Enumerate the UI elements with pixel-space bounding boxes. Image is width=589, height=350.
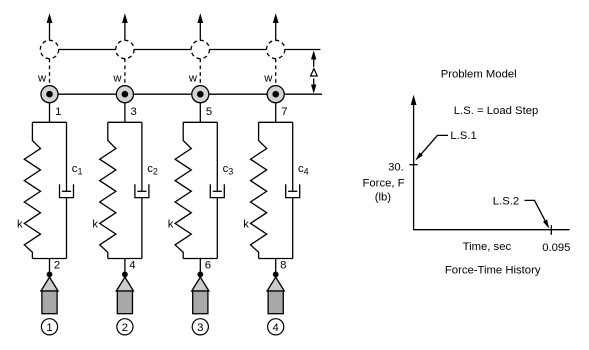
svg-text:2: 2 bbox=[122, 322, 128, 334]
label delta bbox=[311, 69, 318, 76]
svg-text:k: k bbox=[92, 219, 98, 231]
node 8 junction dot bbox=[273, 272, 279, 278]
svg-text:Force-Time History: Force-Time History bbox=[445, 265, 541, 277]
svg-text:30.: 30. bbox=[388, 161, 404, 173]
svg-text:1: 1 bbox=[46, 322, 52, 334]
support anchor triangle, column 4 bbox=[267, 277, 284, 291]
wire: rigid link row through dashed circles bbox=[50, 49, 321, 51]
support anchor triangle, column 1 bbox=[41, 277, 58, 291]
wire mass to spring-damper box, column 4 bbox=[275, 103, 277, 123]
damper c3, column 3 bbox=[210, 122, 224, 258]
displacement arrow, column 2 bbox=[122, 13, 128, 40]
dashed wire from displaced position to mass, column 3 bbox=[199, 59, 201, 86]
top bar of spring-damper pair, column 4 bbox=[259, 121, 293, 123]
svg-text:(lb): (lb) bbox=[375, 191, 392, 203]
wire box to node 8 bbox=[275, 259, 277, 273]
displacement arrow, column 1 bbox=[47, 13, 53, 40]
damper c2, column 2 bbox=[135, 122, 149, 258]
mass node (weight w), column 1 bbox=[41, 86, 58, 103]
node 4 junction dot bbox=[122, 272, 128, 278]
element number 3 (circled) bbox=[192, 319, 208, 335]
svg-text:7: 7 bbox=[281, 106, 287, 118]
svg-text:w: w bbox=[112, 72, 122, 84]
svg-text:w: w bbox=[37, 72, 47, 84]
spring k, column 1 bbox=[24, 122, 40, 258]
tick at force 30 bbox=[409, 164, 417, 166]
svg-text:0.095: 0.095 bbox=[542, 242, 570, 254]
top bar of spring-damper pair, column 2 bbox=[108, 121, 142, 123]
tick at time 0.095 bbox=[550, 225, 552, 235]
leader L.S.1 arrow bbox=[415, 135, 448, 160]
svg-text:1: 1 bbox=[55, 106, 61, 118]
displacement arrow, column 3 bbox=[197, 13, 203, 40]
spring k, column 4 bbox=[251, 122, 267, 258]
mass node (weight w), column 3 bbox=[192, 86, 209, 103]
svg-text:2: 2 bbox=[54, 259, 60, 271]
dashed circle (displaced position), column 3 bbox=[191, 40, 209, 58]
time axis (horizontal) bbox=[413, 229, 570, 231]
mass node (weight w), column 2 bbox=[116, 86, 133, 103]
node 2 junction dot bbox=[47, 272, 53, 278]
mass node (weight w), column 4 bbox=[267, 86, 284, 103]
dimension arrow down (delta) bbox=[311, 79, 316, 94]
dashed circle (displaced position), column 1 bbox=[40, 40, 58, 58]
element number 2 (circled) bbox=[117, 319, 133, 335]
svg-text:w: w bbox=[263, 72, 273, 84]
svg-text:L.S. = Load Step: L.S. = Load Step bbox=[454, 105, 538, 117]
support anchor block, column 4 bbox=[268, 291, 283, 314]
bottom bar of spring-damper pair, column 3 bbox=[183, 258, 217, 260]
damper c1, column 1 bbox=[60, 122, 74, 258]
wire box to node 4 bbox=[124, 259, 126, 273]
svg-text:3: 3 bbox=[131, 106, 137, 118]
element number 4 (circled) bbox=[268, 319, 284, 335]
displacement arrow, column 4 bbox=[273, 13, 279, 40]
dashed circle (displaced position), column 4 bbox=[267, 40, 285, 58]
force axis (vertical) with arrow bbox=[411, 95, 417, 230]
svg-text:Problem Model: Problem Model bbox=[441, 69, 517, 81]
svg-text:L.S.2: L.S.2 bbox=[493, 195, 519, 207]
bottom bar of spring-damper pair, column 4 bbox=[259, 258, 293, 260]
damper c4, column 4 bbox=[286, 122, 300, 258]
wire box to node 6 bbox=[199, 259, 201, 273]
support anchor triangle, column 2 bbox=[116, 277, 133, 291]
support anchor block, column 1 bbox=[42, 291, 57, 314]
wire mass to spring-damper box, column 2 bbox=[124, 103, 126, 123]
svg-text:3: 3 bbox=[197, 322, 203, 334]
top bar of spring-damper pair, column 1 bbox=[32, 121, 66, 123]
spring k, column 3 bbox=[175, 122, 191, 258]
svg-text:6: 6 bbox=[205, 259, 211, 271]
svg-text:w: w bbox=[188, 72, 198, 84]
dashed circle (displaced position), column 2 bbox=[116, 40, 134, 58]
spring k, column 2 bbox=[100, 122, 116, 258]
dashed wire from displaced position to mass, column 1 bbox=[49, 59, 51, 86]
node 6 junction dot bbox=[197, 272, 203, 278]
svg-text:Force, F: Force, F bbox=[363, 177, 405, 189]
element number 1 (circled) bbox=[41, 319, 57, 335]
wire: rigid link row through mass nodes bbox=[50, 93, 323, 95]
wire mass to spring-damper box, column 3 bbox=[199, 103, 201, 123]
svg-text:5: 5 bbox=[206, 106, 212, 118]
dimension arrow up (delta) bbox=[311, 50, 316, 66]
support anchor triangle, column 3 bbox=[192, 277, 209, 291]
svg-text:4: 4 bbox=[129, 259, 135, 271]
svg-text:k: k bbox=[243, 219, 249, 231]
svg-text:k: k bbox=[168, 219, 174, 231]
svg-text:k: k bbox=[17, 219, 23, 231]
svg-text:Time, sec: Time, sec bbox=[463, 241, 512, 253]
svg-text:4: 4 bbox=[273, 322, 279, 334]
svg-text:L.S.1: L.S.1 bbox=[450, 130, 476, 142]
wire box to node 2 bbox=[49, 259, 51, 273]
dashed wire from displaced position to mass, column 4 bbox=[275, 59, 277, 86]
leader L.S.2 arrow bbox=[525, 200, 550, 228]
svg-text:8: 8 bbox=[280, 259, 286, 271]
dashed wire from displaced position to mass, column 2 bbox=[124, 59, 126, 86]
wire mass to spring-damper box, column 1 bbox=[49, 103, 51, 123]
support anchor block, column 2 bbox=[117, 291, 132, 314]
bottom bar of spring-damper pair, column 2 bbox=[108, 258, 142, 260]
top bar of spring-damper pair, column 3 bbox=[183, 121, 217, 123]
support anchor block, column 3 bbox=[193, 291, 208, 314]
bottom bar of spring-damper pair, column 1 bbox=[32, 258, 66, 260]
